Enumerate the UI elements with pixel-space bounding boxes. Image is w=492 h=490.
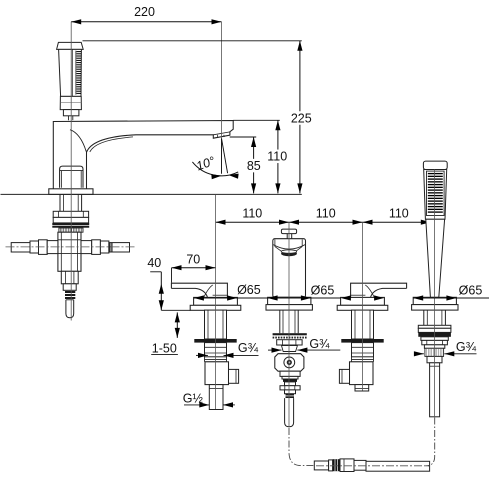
svg-text:220: 220 xyxy=(134,5,155,19)
svg-text:Ø65: Ø65 xyxy=(459,283,483,297)
svg-text:110: 110 xyxy=(389,206,409,220)
svg-text:110: 110 xyxy=(267,150,287,164)
svg-text:G¾: G¾ xyxy=(309,337,330,351)
svg-text:110: 110 xyxy=(242,206,262,220)
svg-text:110: 110 xyxy=(316,206,336,220)
svg-text:Ø65: Ø65 xyxy=(237,283,261,297)
svg-text:1-50: 1-50 xyxy=(152,341,177,355)
svg-text:Ø65: Ø65 xyxy=(311,284,335,298)
svg-text:40: 40 xyxy=(147,256,161,270)
svg-text:85: 85 xyxy=(247,159,261,173)
svg-text:70: 70 xyxy=(186,252,200,266)
svg-text:225: 225 xyxy=(291,111,312,125)
svg-text:G¾: G¾ xyxy=(238,341,259,355)
svg-text:G¾: G¾ xyxy=(456,340,477,354)
